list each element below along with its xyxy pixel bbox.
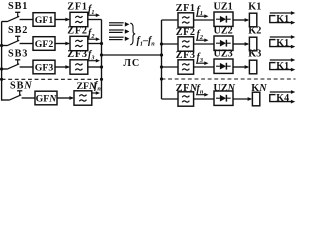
band filter ZF3 (70, 60, 88, 74)
wire bus to receive filter ZF2 (162, 43, 179, 45)
svg-text:K1: K1 (248, 2, 261, 13)
node: ZF2 output junction (100, 42, 103, 45)
amplifier-rectifier UZ3 label (214, 49, 233, 60)
svg-text:GF3: GF3 (35, 63, 54, 74)
node: ZF2 input junction (right) (160, 42, 163, 45)
receive band filter ZF3 (178, 60, 194, 74)
common supply wire (left vertical bus) (1, 22, 3, 101)
generator GF3 (33, 60, 55, 74)
receive band filter ZF2 (178, 37, 194, 51)
relay coil K1 (249, 13, 256, 27)
wire ZF1 to line bus (88, 19, 102, 21)
node: link line junction (right) (160, 53, 163, 56)
frequency label f1 with flow arrow (88, 4, 101, 17)
output contact label K1 (276, 38, 289, 49)
wire bus to receive filter ZFN (162, 98, 179, 100)
svg-text:UZ1: UZ1 (214, 2, 233, 13)
wire ZF3 to UZ3 (194, 66, 215, 68)
wire UZ2 to relay K2 with arrow (233, 42, 249, 46)
svg-text:SB2: SB2 (8, 25, 28, 36)
output contact K1 bracket (269, 40, 275, 47)
output contact K4 lower wire with arrow (269, 100, 295, 104)
relay coil KN (252, 92, 259, 106)
svg-text:UZ3: UZ3 (214, 49, 233, 60)
wire ZF2 to line bus (88, 43, 102, 45)
wire bus to receive filter ZF3 (162, 66, 179, 68)
wire GFN to ZFN with arrow (57, 96, 74, 100)
receive band filter ZF3 label (176, 50, 196, 61)
wire GF2 to ZF2 with arrow (55, 42, 70, 46)
svg-text:ZF3: ZF3 (67, 49, 88, 60)
amplifier-rectifier UZ3 (214, 59, 233, 73)
output contact K1 lower wire with arrow (269, 68, 295, 72)
right distribution bus (vertical) (161, 20, 163, 99)
signal bundle arrow 3 (109, 36, 129, 41)
output contact K1 lower wire with arrow (269, 21, 295, 25)
relay coil K2 label (248, 26, 261, 37)
frequency label f3 with flow arrow (88, 50, 101, 63)
node: ZF3 input junction (right) (160, 65, 163, 68)
node: SB3 branch junction (0, 67, 3, 70)
svg-text:ZF1: ZF1 (67, 2, 88, 13)
output contact K1 bracket (269, 63, 275, 70)
output contact K1 lower wire with arrow (269, 45, 295, 49)
svg-text:K2: K2 (248, 26, 261, 37)
generator GF1 (33, 13, 55, 27)
frequency label f2 (receive) with flow arrow (196, 29, 209, 42)
signal bundle arrow 1 (109, 22, 129, 27)
amplifier-rectifier UZ1 label (214, 2, 233, 13)
wire bus to receive filter ZF1 (162, 19, 179, 21)
communication line LS (wire) (102, 54, 162, 56)
relay coil K2 (249, 37, 256, 51)
output contact K4 upper arrow (270, 90, 296, 94)
signal bundle arrow 2 (109, 29, 129, 34)
svg-text:SBN: SBN (10, 81, 33, 92)
relay coil K3 label (248, 49, 261, 60)
push-button switch SBN (2, 91, 35, 100)
frequency label f1 (receive) with flow arrow (196, 5, 209, 18)
wire UZN to relay KN with arrow (233, 97, 252, 101)
amplifier-rectifier UZN (214, 91, 233, 105)
wire ZF2 to UZ2 (194, 43, 215, 45)
receive band filter ZF1 (178, 13, 194, 27)
left collector bus (vertical) (101, 20, 103, 99)
node: link line junction (left) (100, 53, 103, 56)
frequency label f2 with flow arrow (88, 28, 101, 41)
svg-text:GF1: GF1 (35, 15, 54, 26)
band filter ZF2 label (67, 26, 88, 37)
output contact K4 bracket (269, 95, 275, 102)
svg-text:SB3: SB3 (8, 49, 28, 60)
dashed channel-ellipsis line (left half) (2, 78, 102, 80)
band filter ZF3 label (67, 49, 88, 60)
band filter ZF1 (70, 12, 88, 26)
output contact label K1 (276, 14, 289, 25)
svg-text:K3: K3 (248, 49, 261, 60)
amplifier-rectifier UZ2 (214, 36, 233, 50)
frequency label fn (receive) with flow arrow (196, 84, 209, 97)
amplifier-rectifier UZN label (214, 83, 236, 94)
svg-text:GF2: GF2 (35, 39, 54, 50)
receive band filter ZF1 label (176, 3, 196, 14)
relay coil K3 (249, 60, 256, 74)
wire ZFN to line bus (92, 97, 102, 99)
receive band filter ZF2 label (176, 27, 196, 38)
svg-text:SB1: SB1 (8, 1, 28, 12)
band filter ZF1 label (67, 2, 88, 13)
relay coil K1 label (248, 2, 261, 13)
wire UZ1 to relay K1 with arrow (233, 18, 249, 22)
node: SB2 branch junction (0, 44, 3, 47)
amplifier-rectifier UZ1 (214, 12, 233, 26)
wire ZFN to UZN (194, 98, 215, 100)
node: ZF3 output junction (100, 65, 103, 68)
output contact label K4 (276, 93, 289, 104)
generator GF2 (33, 37, 55, 51)
svg-text:ЛС: ЛС (123, 58, 140, 69)
relay coil KN label (251, 83, 267, 94)
push-button switch SB1 (2, 12, 33, 21)
frequency label f3 (receive) with flow arrow (196, 52, 209, 65)
band filter ZF2 (70, 36, 88, 50)
output contact K1 upper arrow (270, 11, 296, 15)
generator GFN (35, 91, 57, 105)
band filter ZFN label (77, 81, 98, 92)
wire GF1 to ZF1 with arrow (55, 18, 70, 22)
wire ZF1 to UZ1 (194, 19, 215, 21)
node: dashed separator junction (left) (100, 78, 103, 81)
output contact K1 upper arrow (270, 35, 296, 39)
output contact label K1 (276, 61, 289, 72)
amplifier-rectifier UZ2 label (214, 26, 233, 37)
output contact K1 bracket (269, 16, 275, 23)
svg-text:K4: K4 (276, 93, 289, 104)
frequency label fn with flow arrow (90, 81, 101, 95)
svg-text:K1: K1 (276, 61, 289, 72)
wire ZF3 to line bus (88, 66, 102, 68)
svg-text:K1: K1 (276, 14, 289, 25)
svg-text:K1: K1 (276, 38, 289, 49)
push-button switch SB3 (2, 60, 33, 69)
svg-text:GFN: GFN (36, 94, 58, 105)
receive band filter ZFN label (176, 83, 198, 94)
wire GF3 to ZF3 with arrow (55, 65, 70, 69)
push-button switch SB2 (2, 36, 33, 45)
svg-text:ZF2: ZF2 (67, 26, 88, 37)
svg-text:UZ2: UZ2 (214, 26, 233, 37)
output contact K1 upper arrow (270, 58, 296, 62)
band filter ZFN (74, 91, 92, 105)
node: dashed separator junction (far left) (0, 78, 3, 81)
brace grouping frequencies (130, 23, 135, 45)
wire UZ3 to relay K3 with arrow (233, 65, 249, 69)
node: dashed separator junction (right) (160, 77, 163, 80)
receive band filter ZFN (178, 92, 194, 106)
dashed channel-ellipsis line (right half) (162, 78, 296, 80)
